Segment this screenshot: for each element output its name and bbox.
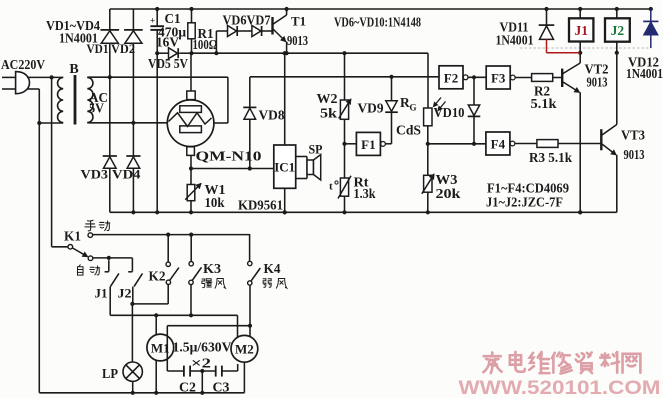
svg-text:1N4001: 1N4001	[626, 66, 663, 81]
svg-text:LP: LP	[102, 366, 118, 381]
svg-text:G: G	[410, 103, 417, 113]
svg-text:M1: M1	[151, 340, 170, 355]
svg-text:×2: ×2	[191, 356, 211, 371]
svg-text:K3: K3	[203, 261, 221, 276]
svg-text:F2: F2	[444, 70, 458, 85]
svg-text:5k: 5k	[320, 106, 338, 121]
svg-text:CdS: CdS	[396, 123, 421, 138]
svg-text:+: +	[150, 16, 155, 26]
svg-text:5.1k: 5.1k	[531, 96, 558, 111]
svg-text:W2: W2	[317, 91, 338, 106]
svg-text:T1: T1	[291, 13, 306, 28]
svg-text:SP: SP	[309, 141, 323, 156]
svg-text:VD6~VD10:1N4148: VD6~VD10:1N4148	[334, 15, 421, 30]
svg-text:VD4: VD4	[112, 166, 141, 181]
svg-text:VD1: VD1	[87, 42, 109, 56]
svg-text:QM-N10: QM-N10	[196, 150, 262, 165]
svg-text:K2: K2	[149, 269, 166, 284]
svg-text:IC1: IC1	[274, 160, 295, 175]
svg-text:5V: 5V	[89, 101, 104, 116]
svg-text:VD5 5V: VD5 5V	[148, 56, 188, 71]
svg-text:VT3: VT3	[621, 129, 645, 144]
svg-text:J2: J2	[611, 23, 625, 38]
svg-text:VD7: VD7	[247, 12, 271, 27]
svg-text:1.3k: 1.3k	[354, 186, 376, 201]
svg-text:J1: J1	[574, 23, 588, 38]
svg-text:R3 5.1k: R3 5.1k	[529, 150, 572, 165]
svg-text:10k: 10k	[205, 195, 225, 210]
svg-text:t: t	[329, 181, 333, 193]
svg-text:M2: M2	[235, 342, 254, 357]
svg-text:20k: 20k	[436, 186, 462, 201]
svg-text:VD9: VD9	[358, 101, 384, 116]
svg-text:W3: W3	[436, 172, 458, 187]
svg-text:B: B	[69, 62, 78, 77]
svg-text:VD8: VD8	[259, 108, 285, 123]
svg-text:F3: F3	[491, 71, 506, 86]
svg-text:F4: F4	[491, 137, 506, 152]
svg-text:VD10: VD10	[434, 105, 465, 120]
svg-text:VD6: VD6	[223, 12, 247, 27]
svg-text:9013: 9013	[287, 33, 308, 48]
svg-text:KD9561: KD9561	[238, 198, 283, 213]
svg-text:AC220V: AC220V	[1, 58, 45, 73]
svg-text:F1: F1	[361, 137, 375, 152]
svg-text:J1: J1	[95, 287, 108, 301]
svg-text:1N4001: 1N4001	[496, 32, 534, 47]
svg-text:K4: K4	[264, 261, 281, 276]
svg-text:9013: 9013	[624, 147, 645, 162]
svg-text:J1~J2:JZC-7F: J1~J2:JZC-7F	[486, 195, 563, 210]
svg-text:J2: J2	[118, 287, 132, 301]
svg-text:1.5μ/630V: 1.5μ/630V	[173, 340, 232, 355]
svg-text:WWW.520101.COM: WWW.520101.COM	[459, 377, 661, 398]
svg-text:100Ω: 100Ω	[193, 37, 218, 52]
svg-text:16V: 16V	[156, 35, 179, 50]
svg-text:9013: 9013	[587, 74, 608, 89]
svg-text:VD3: VD3	[81, 166, 109, 181]
svg-text:R: R	[400, 95, 410, 110]
svg-text:F1~F4:CD4069: F1~F4:CD4069	[487, 181, 569, 196]
svg-text:K1: K1	[64, 229, 81, 244]
svg-text:VD2: VD2	[111, 42, 135, 56]
